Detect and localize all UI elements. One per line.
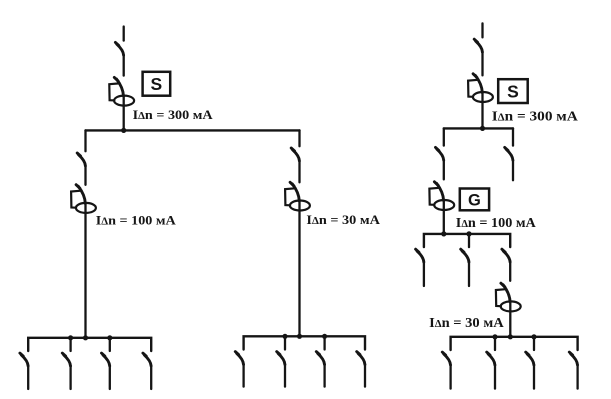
junction: feed to bottom-left bus (83, 335, 88, 340)
wire: 30mA RCD down to bus 3 (right) (509, 302, 511, 337)
wire: switch to RCD 30mA (298, 161, 300, 182)
bus 2 (bottom-left group bus) (28, 338, 151, 351)
junction: feed to right bus 2 (441, 231, 446, 236)
switch, left 100mA branch (77, 153, 85, 166)
feeder 1 bottom-right switch (235, 352, 243, 365)
switch, left-diagram 30mA branch (291, 148, 299, 161)
wire: bus 1 left corner down (84, 130, 86, 151)
RCD 300 mA S-type, right diagram (468, 74, 493, 102)
svg-text:IΔn = 300 мА: IΔn = 300 мА (133, 107, 214, 122)
feeder 4 bottom-left switch (143, 353, 151, 366)
feeder 2 right bus2 wire (468, 262, 470, 286)
svg-text:G: G (468, 192, 481, 210)
feeder 2 right bus3 stub (494, 337, 496, 350)
selectivity class box S (right diagram) (498, 79, 528, 103)
feeder 2 bottom-right stub (284, 336, 286, 349)
feeder 3 right bus3 junction (531, 334, 536, 339)
feeder 3 bottom-right wire (323, 364, 325, 387)
wire: incomer to RCD (123, 55, 125, 75)
feeder 3 right bus3 wire (533, 365, 535, 389)
feeder 4 right bus3 switch (569, 352, 577, 365)
svg-text:IΔn = 100 мА: IΔn = 100 мА (456, 215, 536, 230)
feeder 2 right bus3 switch (487, 352, 495, 365)
feeder 3 bottom-left switch (102, 353, 110, 366)
bus 3 (bottom-right group bus) (244, 336, 365, 349)
feeder 1 bottom-left wire (27, 366, 29, 389)
feeder 2 right bus2 switch (461, 249, 469, 262)
svg-text:IΔn = 30 мА: IΔn = 30 мА (306, 212, 380, 227)
svg-text:IΔn = 300 мА: IΔn = 300 мА (492, 110, 579, 125)
feeder 3 bottom-right stub (323, 336, 325, 349)
wire: right incomer entry (481, 23, 483, 37)
feeder 4 bottom-left wire (150, 366, 152, 389)
selectivity class box S (left diagram) (143, 72, 171, 96)
feeder 3 bottom-right junction (322, 334, 327, 339)
feeder 3 bottom-left junction (107, 335, 112, 340)
RCD 100 mA, left diagram (71, 185, 96, 213)
junction: feed to bottom-right bus (297, 334, 302, 339)
feeder 1 right bus2 wire (423, 262, 425, 286)
bus 1 (right diagram first bus) (444, 127, 513, 129)
selectivity class box G (460, 189, 489, 211)
wire: RCD to bus 1 (123, 96, 125, 130)
junction: incomer to bus 1 (121, 128, 126, 133)
bus 3 (right diagram bottom bus) (451, 337, 578, 350)
wire: G RCD down to bus 2 (right) (443, 201, 445, 234)
feeder 2 right bus2 junction (466, 231, 471, 236)
feeder 3 right bus2 (to 30mA RCD) wire (509, 262, 511, 281)
feeder 3 right bus3 stub (533, 337, 535, 350)
switch, G branch (436, 147, 444, 160)
wire: spare branch open end (512, 161, 514, 181)
feeder 3 bottom-right switch (316, 352, 324, 365)
wire: right bus1 left corner down (443, 128, 445, 145)
RCD 30 mA, right diagram (496, 283, 521, 311)
bus 2 (right diagram) (424, 234, 510, 247)
feeder 1 right bus3 wire (449, 365, 451, 389)
feeder 2 bottom-left wire (69, 366, 71, 389)
junction: feed to right bus 3 (508, 334, 513, 339)
feeder 2 bottom-right wire (284, 364, 286, 387)
feeder 2 bottom-left junction (68, 335, 73, 340)
feeder 1 bottom-right wire (242, 364, 244, 387)
bus 1 (left diagram distribution bus) (86, 129, 300, 131)
RCD 300 mA S-type, left diagram (109, 77, 134, 105)
feeder 2 bottom-right junction (282, 334, 287, 339)
feeder 2 bottom-right switch (277, 352, 285, 365)
feeder 1 bottom-left switch (20, 353, 28, 366)
junction: incomer to right bus 1 (480, 126, 485, 131)
wire: right bus1 right corner down (512, 128, 514, 145)
feeder 3 right bus2 (to 30mA RCD) switch (502, 249, 510, 262)
wire: bus 1 right corner down (298, 130, 300, 146)
wire: RCD 30mA down to bus 3 (298, 201, 300, 336)
wire: RCD to bus 1 (right) (481, 93, 483, 129)
feeder 4 bottom-right wire (364, 364, 366, 387)
wire: switch to RCD 100mA (84, 166, 86, 185)
svg-text:IΔn = 100 мА: IΔn = 100 мА (96, 213, 177, 228)
disconnect switch, right incomer (474, 39, 482, 52)
feeder 2 right bus2 stub (468, 234, 470, 247)
switch, spare branch (505, 147, 513, 160)
RCD 30 mA, left diagram (285, 182, 310, 210)
wire: switch to G RCD (443, 161, 445, 180)
svg-text:S: S (507, 81, 519, 101)
feeder 3 right bus3 switch (526, 352, 534, 365)
svg-text:IΔn = 30 мА: IΔn = 30 мА (429, 315, 504, 330)
feeder 3 bottom-left stub (109, 338, 111, 351)
feeder 3 bottom-left wire (109, 366, 111, 389)
feeder 1 right bus3 switch (442, 352, 450, 365)
wire: RCD 100mA down to bus 2 (84, 204, 86, 338)
feeder 4 bottom-right switch (357, 352, 365, 365)
feeder 2 bottom-left stub (69, 338, 71, 351)
feeder 1 right bus2 switch (416, 249, 424, 262)
feeder 2 right bus3 wire (494, 365, 496, 389)
wire: incomer to RCD (right) (481, 52, 483, 75)
svg-text:S: S (151, 74, 163, 94)
RCD 100 mA G-type (429, 182, 454, 210)
feeder 2 right bus3 junction (492, 334, 497, 339)
wire: left incomer entry (123, 27, 125, 41)
disconnect switch, left incomer (115, 42, 123, 55)
feeder 2 bottom-left switch (62, 353, 70, 366)
feeder 4 right bus3 wire (576, 365, 578, 389)
